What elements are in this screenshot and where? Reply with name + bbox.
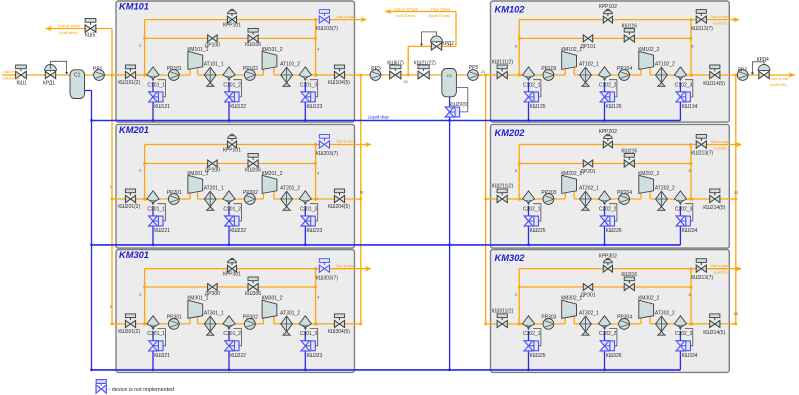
svg-text:AT202_1: AT202_1 [579, 186, 599, 192]
svg-text:PP203: PP203 [541, 190, 556, 196]
svg-text:AT302_2: AT302_2 [655, 310, 675, 316]
svg-text:AT102_1: AT102_1 [579, 62, 599, 68]
svg-text:4: 4 [317, 47, 319, 51]
svg-text:PP1: PP1 [93, 66, 103, 72]
svg-text:PP103: PP103 [541, 66, 556, 72]
svg-text:AT101_1: AT101_1 [204, 62, 224, 68]
svg-text:4: 4 [317, 171, 319, 175]
svg-text:КМ101_1: КМ101_1 [187, 47, 208, 53]
svg-text:КМ301_2: КМ301_2 [262, 296, 283, 302]
svg-text:Gas to stack: Gas to stack [336, 264, 356, 268]
svg-text:5: 5 [515, 293, 517, 297]
svg-text:PP303: PP303 [541, 315, 556, 321]
svg-text:PP304: PP304 [617, 315, 632, 321]
svg-text:C202_1: C202_1 [523, 206, 541, 212]
svg-text:КШ303(7): КШ303(7) [316, 275, 338, 281]
svg-text:KM102: KM102 [495, 5, 526, 15]
svg-text:КШ313(7): КШ313(7) [691, 275, 713, 281]
svg-text:2: 2 [110, 305, 112, 309]
svg-text:КШ321: КШ321 [154, 353, 170, 359]
svg-text:КШ314(5): КШ314(5) [703, 330, 725, 336]
svg-text:(outGVD): (outGVD) [770, 82, 788, 87]
svg-text:КМ202_1: КМ202_1 [561, 171, 582, 177]
svg-text:КШ123: КШ123 [307, 104, 323, 110]
svg-text:КШ311(2): КШ311(2) [492, 309, 514, 315]
svg-text:AT201_1: AT201_1 [204, 186, 224, 192]
svg-text:PP301: PP301 [167, 315, 182, 321]
svg-text:5: 5 [515, 169, 517, 173]
svg-text:КРД4: КРД4 [757, 57, 769, 63]
svg-text:C101_2: C101_2 [223, 82, 241, 88]
svg-text:AT302_1: AT302_1 [579, 310, 599, 316]
svg-text:КШ101(2): КШ101(2) [118, 80, 140, 86]
svg-text:C301_3: C301_3 [300, 331, 318, 337]
svg-text:Pipe 30km: Pipe 30km [431, 7, 451, 12]
svg-text:Gas to stack: Gas to stack [711, 264, 731, 268]
svg-text:C102_3: C102_3 [675, 82, 693, 88]
svg-text:КШ134: КШ134 [682, 104, 698, 110]
svg-text:19: 19 [359, 191, 363, 195]
svg-text:PP7: PP7 [738, 67, 748, 73]
svg-text:(out302): (out302) [714, 271, 727, 275]
svg-text:C1: C1 [74, 72, 81, 78]
svg-text:C201_1: C201_1 [147, 206, 165, 212]
svg-text:КМ301_1: КМ301_1 [187, 296, 208, 302]
svg-text:3: 3 [139, 44, 141, 48]
svg-text:КРД2: КРД2 [442, 41, 454, 47]
svg-text:КМ201_1: КМ201_1 [187, 171, 208, 177]
svg-text:КРР201: КРР201 [223, 147, 241, 153]
svg-text:КШ125: КШ125 [530, 104, 546, 110]
svg-text:КМ302_2: КМ302_2 [638, 296, 659, 302]
svg-text:PP3: PP3 [371, 66, 381, 72]
svg-text:КШ301(2): КШ301(2) [118, 329, 140, 335]
svg-text:C2: C2 [447, 73, 453, 78]
svg-text:22: 22 [734, 191, 738, 195]
svg-text:Gas to net: Gas to net [770, 76, 789, 81]
svg-text:КШ20(9): КШ20(9) [449, 102, 469, 108]
svg-text:C102_2: C102_2 [599, 82, 617, 88]
svg-text:Gas to stack: Gas to stack [711, 15, 731, 19]
svg-text:(pipeGTank): (pipeGTank) [429, 13, 451, 18]
svg-text:КРР202: КРР202 [599, 129, 617, 135]
svg-text:КМ102_2: КМ102_2 [638, 47, 659, 53]
svg-text:1: 1 [110, 185, 112, 189]
svg-text:PP204: PP204 [617, 190, 632, 196]
svg-text:Gas to stack: Gas to stack [58, 23, 80, 28]
svg-text:AT301_2: AT301_2 [280, 310, 300, 316]
svg-text:C101_1: C101_1 [147, 82, 165, 88]
svg-text:КШ1: КШ1 [17, 80, 27, 86]
svg-text:PP101: PP101 [167, 66, 182, 72]
svg-text:6: 6 [689, 293, 691, 297]
svg-text:(outFakeL): (outFakeL) [59, 30, 79, 35]
svg-text:AT202_2: AT202_2 [655, 186, 675, 192]
svg-text:C201_2: C201_2 [223, 206, 241, 212]
svg-text:KM101: KM101 [119, 2, 149, 12]
svg-text:КШ116: КШ116 [622, 24, 638, 30]
svg-text:ДР201: ДР201 [580, 169, 595, 175]
svg-text:PP5: PP5 [469, 65, 479, 71]
svg-text:C301_2: C301_2 [223, 331, 241, 337]
svg-text:C201_3: C201_3 [300, 206, 318, 212]
svg-text:КШ201(2): КШ201(2) [118, 204, 140, 210]
svg-text:C302_1: C302_1 [523, 331, 541, 337]
svg-text:Gas inlet: Gas inlet [3, 69, 20, 74]
svg-text:ДР301: ДР301 [580, 292, 595, 298]
svg-text:КШ325: КШ325 [530, 353, 546, 359]
svg-text:KM202: KM202 [495, 128, 526, 138]
svg-text:КШ211(2): КШ211(2) [492, 184, 514, 190]
svg-text:КШ6(7): КШ6(7) [387, 61, 404, 67]
svg-text:PP104: PP104 [617, 66, 632, 72]
svg-text:3: 3 [139, 293, 141, 297]
svg-text:КШ122: КШ122 [230, 104, 246, 110]
svg-text:C301_1: C301_1 [147, 331, 165, 337]
svg-text:6: 6 [692, 44, 694, 48]
svg-text:23: 23 [734, 312, 738, 316]
svg-text:КШ204(5): КШ204(5) [328, 204, 350, 210]
svg-text:КШ213(7): КШ213(7) [691, 151, 713, 157]
svg-text:PP302: PP302 [243, 315, 258, 321]
svg-text:Gas to stack: Gas to stack [336, 15, 356, 19]
svg-text:C302_3: C302_3 [675, 331, 693, 337]
svg-text:КШ214(5): КШ214(5) [703, 205, 725, 211]
svg-text:PP102: PP102 [243, 66, 258, 72]
svg-text:КШ216: КШ216 [621, 149, 637, 155]
svg-text:КРР302: КРР302 [599, 253, 617, 259]
svg-text:КШ221: КШ221 [154, 228, 170, 234]
svg-text:PP201: PP201 [167, 190, 182, 196]
svg-text:КШ104(5): КШ104(5) [328, 80, 350, 86]
svg-text:КШ323: КШ323 [307, 353, 323, 359]
svg-text:КШ326: КШ326 [606, 353, 622, 359]
svg-text:(outGTank): (outGTank) [395, 13, 415, 18]
svg-text:КШ103(7): КШ103(7) [316, 26, 338, 32]
svg-text:5: 5 [515, 45, 517, 49]
svg-text:ДР101: ДР101 [580, 44, 595, 50]
svg-text:КШ206: КШ206 [245, 167, 261, 173]
svg-text:КШ225: КШ225 [530, 228, 546, 234]
svg-text:КШ106: КШ106 [245, 42, 261, 48]
svg-text:КШ234: КШ234 [682, 228, 698, 234]
svg-text:KM201: KM201 [119, 125, 149, 135]
svg-text:КРР102: КРР102 [599, 4, 617, 10]
svg-text:PP202: PP202 [243, 190, 258, 196]
svg-text:КМ101_2: КМ101_2 [262, 47, 283, 53]
svg-text:- device is not implemented: - device is not implemented [109, 387, 175, 393]
svg-text:3: 3 [139, 169, 141, 173]
svg-text:КШ114(5): КШ114(5) [703, 81, 725, 87]
svg-text:КШ121: КШ121 [154, 104, 170, 110]
svg-text:КШ304(5): КШ304(5) [328, 329, 350, 335]
svg-text:КШ203(7): КШ203(7) [316, 151, 338, 157]
svg-text:6: 6 [689, 169, 691, 173]
svg-text:КШ111(2): КШ111(2) [492, 60, 514, 66]
svg-text:КРР101: КРР101 [223, 22, 241, 28]
svg-text:AT301_1: AT301_1 [204, 310, 224, 316]
svg-text:KM301: KM301 [119, 250, 149, 260]
svg-text:(out202): (out202) [714, 146, 727, 150]
svg-text:20: 20 [404, 80, 408, 84]
svg-text:Liquid drop: Liquid drop [368, 114, 389, 119]
svg-text:C202_3: C202_3 [675, 206, 693, 212]
svg-text:КМ302_1: КМ302_1 [561, 296, 582, 302]
svg-text:AT101_2: AT101_2 [280, 62, 300, 68]
svg-text:КШ306: КШ306 [245, 291, 261, 297]
svg-text:КШ222: КШ222 [230, 228, 246, 234]
svg-text:C102_1: C102_1 [523, 82, 541, 88]
svg-text:Gas to stack: Gas to stack [711, 140, 731, 144]
svg-text:КМ102_1: КМ102_1 [561, 47, 582, 53]
svg-text:КШ113(7): КШ113(7) [691, 26, 713, 32]
svg-text:КРД1: КРД1 [43, 80, 55, 86]
svg-text:КШ21(22): КШ21(22) [414, 61, 436, 67]
svg-text:21: 21 [481, 70, 485, 74]
svg-text:AT201_2: AT201_2 [280, 186, 300, 192]
svg-text:КМ201_2: КМ201_2 [262, 171, 283, 177]
svg-text:КШ334: КШ334 [682, 353, 698, 359]
svg-text:КШ316: КШ316 [621, 272, 637, 278]
svg-text:КШ223: КШ223 [307, 228, 323, 234]
svg-text:КШ226: КШ226 [606, 228, 622, 234]
svg-text:КМ202_2: КМ202_2 [638, 171, 659, 177]
svg-text:Gas to GTank: Gas to GTank [394, 7, 418, 12]
svg-text:КШ126: КШ126 [606, 104, 622, 110]
svg-text:(out102): (out102) [714, 21, 727, 25]
svg-text:4: 4 [317, 295, 319, 299]
svg-text:КРР301: КРР301 [223, 272, 241, 278]
svg-text:AT102_2: AT102_2 [655, 62, 675, 68]
svg-text:КШ5: КШ5 [85, 33, 95, 39]
svg-text:C101_3: C101_3 [300, 82, 318, 88]
svg-text:C202_2: C202_2 [599, 206, 617, 212]
svg-text:Gas to stack: Gas to stack [336, 140, 356, 144]
svg-text:КШ322: КШ322 [230, 353, 246, 359]
svg-text:KM302: KM302 [495, 253, 526, 263]
svg-text:C302_2: C302_2 [599, 331, 617, 337]
